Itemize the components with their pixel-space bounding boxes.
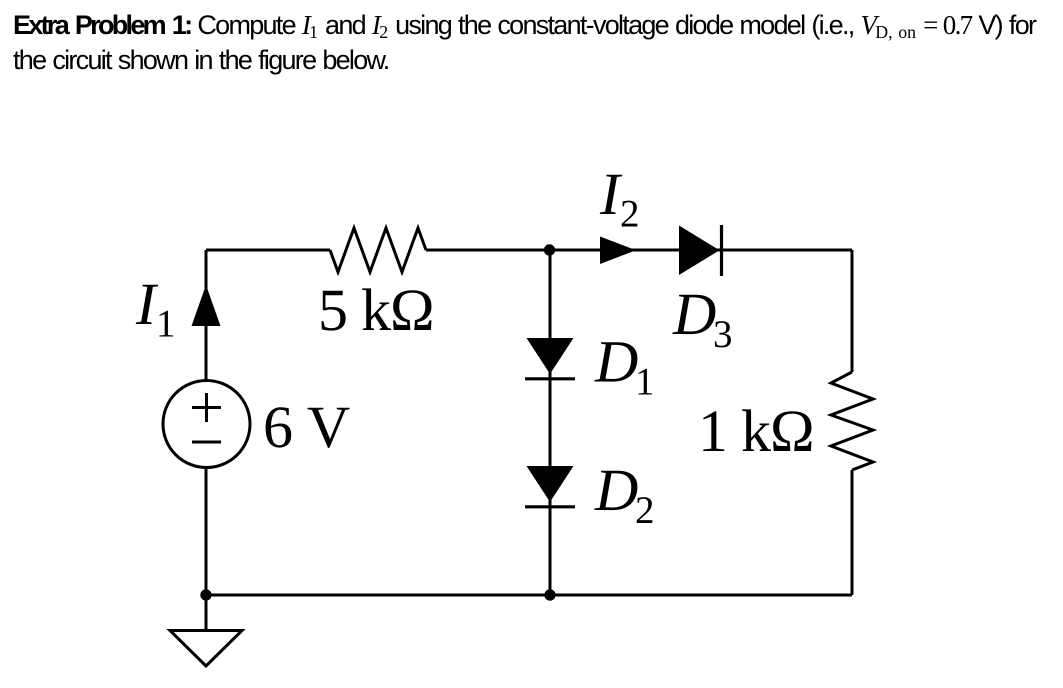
ground symbol triangle	[170, 631, 242, 667]
label 5 kOhm	[318, 277, 434, 343]
svg-text:5 kΩ: 5 kΩ	[318, 277, 434, 343]
problem statement line 2	[13, 45, 389, 76]
label D1	[594, 328, 655, 403]
resistor R 1k zigzag	[831, 372, 873, 470]
voltage source minus sign	[192, 441, 221, 444]
svg-text:D: D	[594, 328, 638, 394]
wire: source bottom to ground node	[205, 467, 208, 595]
svg-text:2: 2	[635, 489, 655, 532]
current arrow I2 (right)	[600, 237, 636, 265]
current arrow I1 (up)	[192, 285, 221, 326]
svg-text:D: D	[594, 457, 638, 523]
ground stub wire	[205, 595, 208, 630]
voltage source plus sign	[192, 393, 221, 422]
diode D1 triangle	[527, 338, 574, 374]
label I2	[599, 161, 640, 236]
svg-text:1: 1	[156, 303, 176, 346]
resistor R 5k zigzag	[330, 228, 426, 272]
wire: top-left horizontal from corner to 5k resistor	[206, 249, 330, 252]
svg-text:6 V: 6 V	[263, 394, 350, 460]
label I1	[135, 271, 176, 346]
svg-text:2: 2	[620, 193, 640, 236]
problem statement line 1	[13, 10, 1035, 43]
wire: top horizontal from resistor to right corner	[426, 249, 852, 252]
wire: left vertical (source branch)	[205, 250, 208, 381]
wire: middle vertical branch	[549, 250, 552, 595]
diode D2 cathode bar	[525, 505, 575, 508]
label 6 V	[263, 394, 350, 460]
label D2	[594, 457, 655, 532]
svg-text:1 kΩ: 1 kΩ	[698, 398, 814, 464]
svg-text:1: 1	[635, 360, 655, 403]
diode D3 cathode bar	[720, 225, 723, 276]
node dot bottom left	[200, 589, 211, 600]
wire: bottom horizontal	[206, 594, 852, 597]
diode D1 cathode bar	[525, 377, 575, 380]
diode D2 triangle	[527, 466, 574, 502]
label 1 kOhm	[698, 398, 814, 464]
label D3	[672, 281, 733, 356]
svg-text:3: 3	[713, 313, 733, 356]
node dot top middle	[544, 244, 555, 255]
wire: right vertical top segment	[851, 250, 854, 372]
wire: right vertical bottom segment	[851, 470, 854, 595]
svg-text:D: D	[672, 281, 716, 347]
voltage source V1 circle	[163, 381, 250, 468]
node dot bottom middle	[544, 589, 555, 600]
diode D3 triangle	[679, 226, 720, 276]
